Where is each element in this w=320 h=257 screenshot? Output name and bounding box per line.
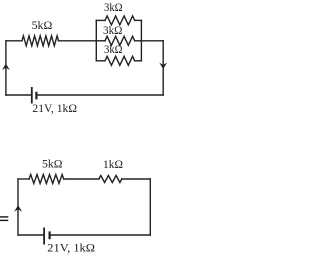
wire: bottom branch right stub bbox=[135, 60, 142, 62]
battery B2 long plate bbox=[43, 228, 45, 245]
svg-text:5kΩ: 5kΩ bbox=[32, 18, 53, 32]
battery B1 long plate bbox=[31, 87, 33, 104]
wire: middle branch left stub bbox=[96, 40, 105, 42]
wire: bottom circuit left vertical bbox=[17, 179, 19, 235]
svg-text:21V, 1kΩ: 21V, 1kΩ bbox=[32, 101, 77, 115]
svg-text:1kΩ: 1kΩ bbox=[103, 157, 123, 171]
svg-text:5kΩ: 5kΩ bbox=[42, 157, 63, 171]
wire: bottom circuit top-right segment bbox=[122, 178, 151, 180]
equals sign (left margin) bbox=[0, 216, 8, 217]
svg-text:3kΩ: 3kΩ bbox=[103, 23, 123, 37]
arrow: current down on right wire (top circuit) bbox=[159, 63, 167, 69]
svg-text:3kΩ: 3kΩ bbox=[104, 42, 123, 56]
svg-text:3kΩ: 3kΩ bbox=[104, 0, 123, 14]
resistor R3 3kOhm (middle branch) bbox=[105, 36, 135, 45]
wire: top branch right stub bbox=[135, 19, 142, 21]
arrow: current up on left wire (bottom circuit) bbox=[14, 205, 22, 211]
wire: top circuit top-left segment bbox=[6, 40, 22, 42]
wire: top branch left stub bbox=[96, 19, 105, 21]
arrow: current up on left wire (top circuit) bbox=[2, 64, 10, 70]
svg-text:21V, 1kΩ: 21V, 1kΩ bbox=[47, 241, 95, 255]
node: parallel block left rail bbox=[95, 20, 97, 60]
resistor R1 5kOhm (top circuit) bbox=[22, 36, 59, 46]
battery B1 short plate bbox=[35, 92, 37, 100]
wire: top circuit bottom right segment bbox=[36, 94, 163, 96]
resistor R4 3kOhm (bottom branch) bbox=[105, 56, 135, 65]
wire: bottom circuit bottom-left segment bbox=[18, 234, 44, 236]
wire: middle branch right stub bbox=[135, 40, 142, 42]
resistor R6 1kOhm (bottom circuit) bbox=[99, 176, 122, 183]
wire: top circuit right vertical bbox=[162, 41, 164, 95]
wire: top circuit left vertical bbox=[5, 41, 7, 95]
wire: bottom circuit right vertical bbox=[149, 179, 151, 235]
wire: top circuit top middle segment bbox=[59, 40, 97, 42]
wire: bottom circuit bottom-right segment bbox=[50, 234, 151, 236]
wire: top circuit bottom left segment bbox=[6, 94, 32, 96]
wire: bottom circuit top-left segment bbox=[18, 178, 29, 180]
wire: top circuit top-right segment bbox=[141, 40, 163, 42]
battery B2 short plate bbox=[48, 231, 50, 239]
node: parallel block right rail bbox=[140, 20, 142, 60]
wire: bottom circuit top middle segment bbox=[64, 178, 99, 180]
resistor R2 3kOhm (top branch) bbox=[105, 16, 135, 25]
resistor R5 5kOhm (bottom circuit) bbox=[29, 175, 64, 184]
wire: bottom branch left stub bbox=[96, 60, 105, 62]
